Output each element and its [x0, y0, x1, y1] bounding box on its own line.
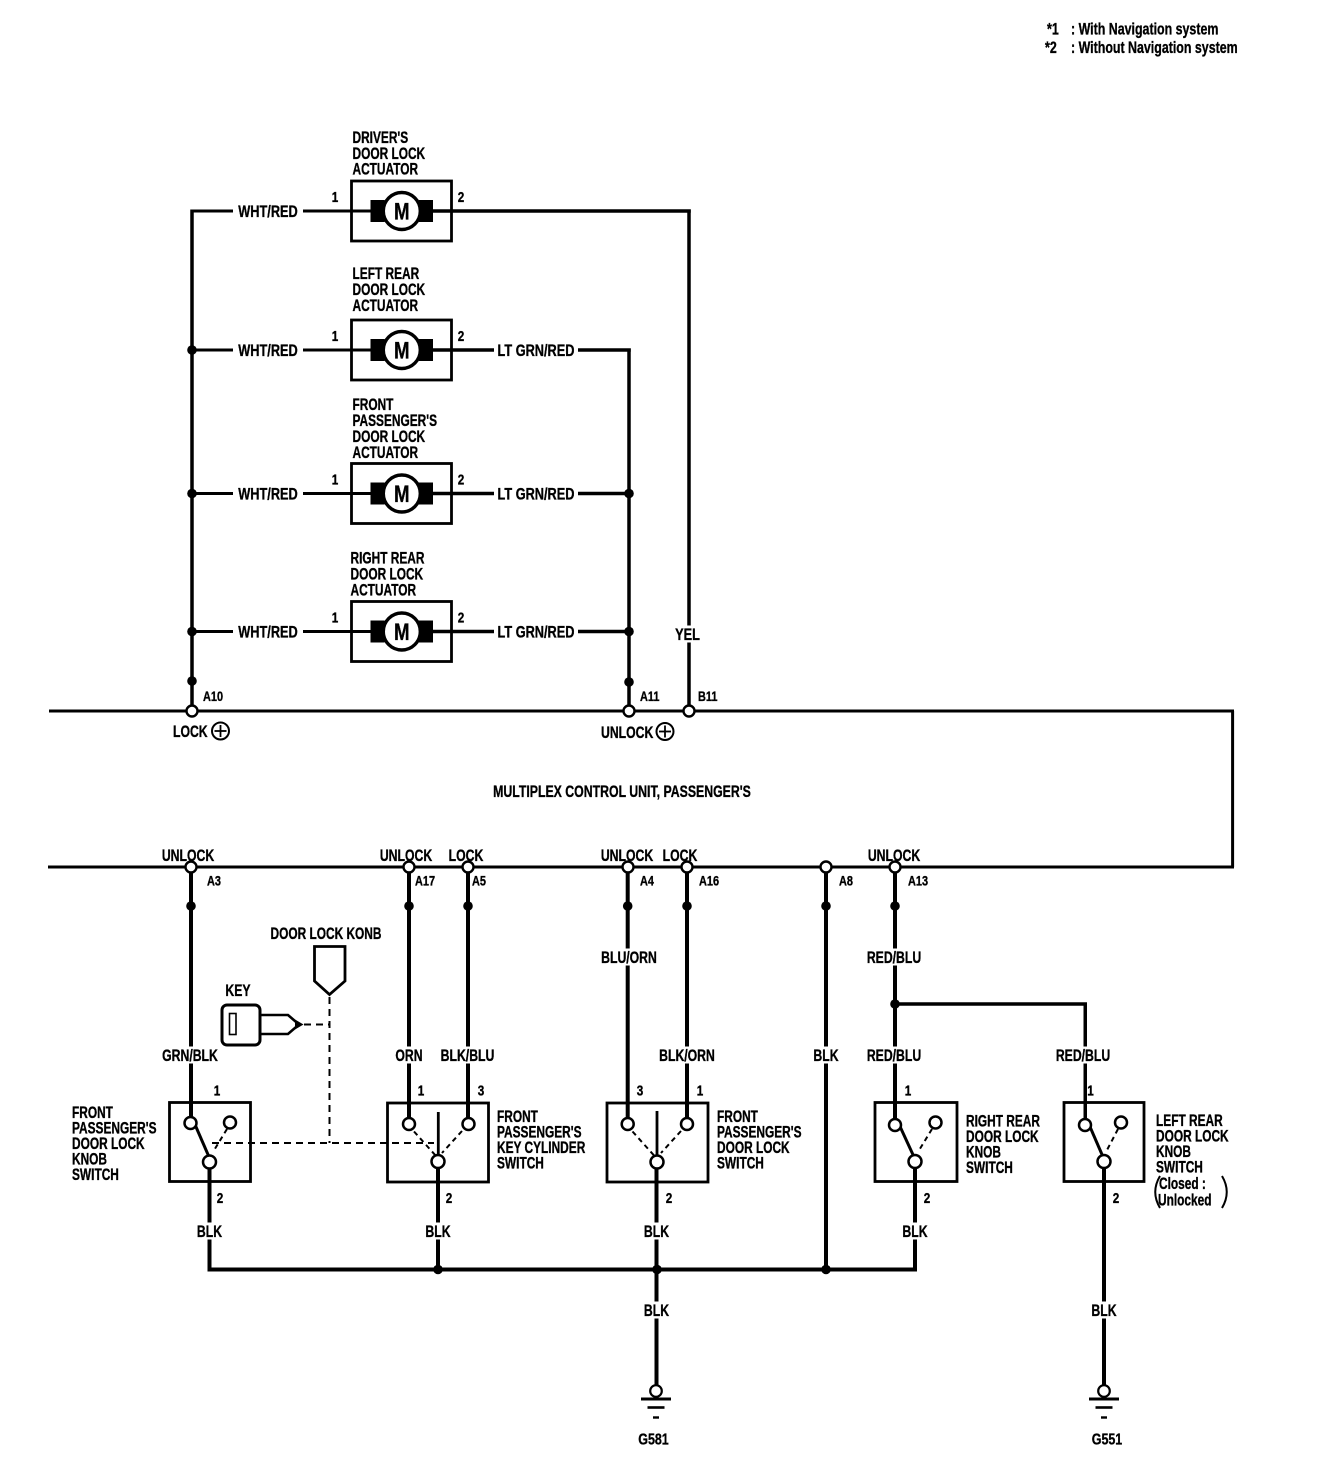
- wire BLK/BLU from A5 to key cylinder switch pin 3: [441, 873, 495, 1119]
- svg-text:BLK: BLK: [644, 1223, 669, 1241]
- svg-text:2: 2: [458, 471, 465, 488]
- svg-text:ACTUATOR: ACTUATOR: [351, 582, 417, 601]
- svg-text:RED/BLU: RED/BLU: [867, 949, 921, 967]
- junction below A4: [623, 901, 633, 911]
- svg-text:M: M: [394, 198, 410, 225]
- svg-text:KEY: KEY: [225, 982, 250, 1000]
- pin A16 LOCK: [663, 847, 719, 889]
- svg-text:A3: A3: [207, 873, 221, 889]
- junction lock trunk / left rear actuator: [187, 345, 197, 355]
- svg-text:2: 2: [446, 1190, 453, 1207]
- svg-text:M: M: [394, 619, 410, 646]
- junction below A17: [404, 901, 414, 911]
- svg-text:BLK: BLK: [644, 1302, 669, 1320]
- dashed link key to knob line: [304, 1024, 330, 1026]
- svg-text:A17: A17: [415, 873, 435, 889]
- svg-text:LT GRN/RED: LT GRN/RED: [498, 341, 575, 360]
- wire GRN/BLK from A3 to knob switch pin 1: [162, 873, 219, 1118]
- junction ground bus / S2: [433, 1265, 443, 1275]
- svg-text:SWITCH: SWITCH: [966, 1159, 1013, 1178]
- svg-text:BLK: BLK: [197, 1223, 222, 1241]
- svg-text:*2: *2: [1045, 39, 1057, 57]
- pin A17 UNLOCK: [380, 847, 435, 889]
- junction below A3: [186, 901, 196, 911]
- switch S5 left rear door lock knob switch: [1064, 1082, 1144, 1206]
- junction ground bus / A8: [821, 1265, 831, 1275]
- wire WHT/RED to front passenger's actuator pin 1: [192, 485, 371, 504]
- wire LT GRN/RED front passenger's actuator pin 2 to unlock trunk: [433, 485, 629, 504]
- svg-text:1: 1: [332, 189, 339, 206]
- svg-text:BLK/BLU: BLK/BLU: [441, 1047, 495, 1065]
- wire ground bus: [208, 1268, 918, 1272]
- svg-text:2: 2: [666, 1190, 673, 1207]
- svg-text:A11: A11: [640, 689, 659, 705]
- wire BLK switch S2 pin 2 to ground bus: [425, 1168, 452, 1269]
- svg-text:UNLOCK: UNLOCK: [601, 847, 654, 865]
- svg-text:WHT/RED: WHT/RED: [238, 485, 298, 504]
- junction below A5: [463, 901, 473, 911]
- svg-text:: With Navigation system: : With Navigation system: [1071, 21, 1218, 39]
- switch S2 label: [497, 1108, 586, 1173]
- svg-text:Unlocked: Unlocked: [1158, 1192, 1212, 1211]
- svg-text:UNLOCK: UNLOCK: [162, 847, 215, 865]
- svg-text:SWITCH: SWITCH: [717, 1155, 764, 1174]
- svg-text:ACTUATOR: ACTUATOR: [353, 444, 419, 463]
- wire RED/BLU from A13 to right rear knob switch pin 1: [867, 873, 922, 1120]
- svg-text:SWITCH: SWITCH: [497, 1155, 544, 1174]
- svg-text:1: 1: [332, 328, 339, 345]
- svg-text:SWITCH: SWITCH: [72, 1166, 119, 1185]
- wire lock trunk from driver actuator pin 1 down to A10: [190, 210, 194, 710]
- actuator label right rear door lock: [351, 550, 425, 601]
- switch S3 front passenger's door lock switch: [607, 1082, 708, 1206]
- svg-text:1: 1: [697, 1082, 704, 1099]
- svg-text:2: 2: [458, 189, 465, 206]
- svg-text:BLK: BLK: [425, 1223, 450, 1241]
- svg-text:G551: G551: [1092, 1431, 1123, 1449]
- svg-text:M: M: [394, 337, 410, 364]
- svg-text:ORN: ORN: [395, 1047, 422, 1065]
- wire BLK/ORN from A16 to door lock switch pin 1: [659, 873, 715, 1119]
- wire BLK switch S5 pin 2 to G551: [1091, 1168, 1118, 1385]
- actuator label left rear door lock: [353, 265, 426, 316]
- svg-text:1: 1: [332, 609, 339, 626]
- svg-text:1: 1: [214, 1082, 221, 1099]
- pin A5 LOCK: [449, 847, 486, 889]
- wire BLU/ORN from A4 to door lock switch pin 3: [601, 873, 657, 1119]
- junction unlock trunk / front passenger actuator: [624, 489, 634, 499]
- pin A13 UNLOCK: [868, 847, 928, 889]
- svg-text:ACTUATOR: ACTUATOR: [353, 297, 419, 316]
- pin A4 UNLOCK: [601, 847, 654, 889]
- actuator M3 front passenger's door lock: [332, 464, 465, 524]
- switch S4 label: [966, 1113, 1040, 1178]
- svg-text:2: 2: [1113, 1190, 1120, 1207]
- svg-text:1: 1: [1087, 1082, 1094, 1099]
- svg-text:A13: A13: [908, 873, 928, 889]
- svg-text:1: 1: [905, 1082, 912, 1099]
- svg-text:G581: G581: [638, 1431, 669, 1449]
- pin A3 UNLOCK: [162, 847, 221, 889]
- junction unlock trunk / right rear actuator: [624, 627, 634, 637]
- junction ground bus / S3: [652, 1265, 662, 1275]
- svg-text:WHT/RED: WHT/RED: [238, 623, 298, 642]
- svg-text:UNLOCK: UNLOCK: [601, 724, 654, 742]
- multiplex control unit, passenger's (box): [48, 710, 1234, 869]
- actuator label driver's door lock: [353, 129, 426, 179]
- switch S2 front passenger's key cylinder switch: [388, 1082, 489, 1206]
- wire WHT/RED to driver's actuator pin 1: [192, 202, 371, 221]
- wire driver's actuator pin 2 to YEL trunk: [433, 209, 691, 213]
- wire WHT/RED to left rear actuator pin 1: [192, 341, 371, 360]
- switch S4 right rear door lock knob switch: [875, 1082, 957, 1206]
- pin A11 UNLOCK: [601, 689, 674, 743]
- svg-text:A16: A16: [699, 873, 719, 889]
- key symbol: [222, 982, 304, 1045]
- ground G581: [638, 1385, 671, 1449]
- svg-text:*1: *1: [1047, 21, 1059, 39]
- wire BLK switch S1 pin 2 to ground bus: [196, 1169, 223, 1272]
- svg-text:BLK: BLK: [1091, 1302, 1116, 1320]
- svg-text:YEL: YEL: [675, 625, 700, 644]
- svg-text:BLK: BLK: [902, 1223, 927, 1241]
- wire YEL from driver actuator pin 2 down to B11: [675, 210, 700, 710]
- switch S5 label: [1155, 1112, 1229, 1210]
- wire ORN from A17 to key cylinder switch pin 1: [394, 873, 424, 1119]
- wire RED/BLU branch to left rear knob switch pin 1: [895, 1002, 1111, 1119]
- svg-text:2: 2: [217, 1190, 224, 1207]
- svg-text:UNLOCK: UNLOCK: [868, 847, 921, 865]
- dashed link knob/key to switches: [212, 1142, 434, 1144]
- svg-text:A5: A5: [472, 873, 486, 889]
- svg-text:BLU/ORN: BLU/ORN: [601, 949, 657, 967]
- svg-text:: Without Navigation system: : Without Navigation system: [1071, 39, 1238, 57]
- junction lock trunk / front passenger actuator: [187, 489, 197, 499]
- junction lock trunk above A10: [187, 676, 197, 686]
- svg-text:LT GRN/RED: LT GRN/RED: [498, 485, 575, 504]
- svg-text:2: 2: [924, 1190, 931, 1207]
- junction below A13: [890, 901, 900, 911]
- wire BLK switch S3 pin 2 to ground bus and G581: [643, 1169, 670, 1386]
- door lock knob symbol: [271, 925, 382, 994]
- dashed link knob down: [329, 997, 331, 1143]
- svg-text:LOCK: LOCK: [449, 847, 484, 865]
- svg-text:MULTIPLEX CONTROL UNIT, PASSEN: MULTIPLEX CONTROL UNIT, PASSENGER'S: [493, 783, 751, 801]
- pin B11: [684, 689, 718, 717]
- svg-text:RED/BLU: RED/BLU: [867, 1047, 921, 1065]
- svg-text:LOCK: LOCK: [663, 847, 698, 865]
- svg-text:RED/BLU: RED/BLU: [1056, 1047, 1110, 1065]
- svg-text:A10: A10: [203, 689, 223, 705]
- switch S3 label: [717, 1108, 802, 1173]
- wire BLK from A8 to ground bus: [813, 873, 840, 1270]
- svg-text:2: 2: [458, 328, 465, 345]
- junction below A8: [821, 901, 831, 911]
- wire unlock trunk from left rear actuator pin 2 down to A11: [627, 349, 631, 710]
- svg-text:WHT/RED: WHT/RED: [238, 341, 298, 360]
- actuator label front passenger's door lock: [353, 396, 438, 463]
- junction lock trunk / right rear actuator: [187, 627, 197, 637]
- svg-text:2: 2: [458, 609, 465, 626]
- svg-text:WHT/RED: WHT/RED: [238, 202, 298, 221]
- wire LT GRN/RED left rear actuator pin 2 to unlock trunk: [433, 341, 631, 360]
- svg-text:3: 3: [637, 1082, 644, 1099]
- svg-text:UNLOCK: UNLOCK: [380, 847, 433, 865]
- switch S1 label: [72, 1104, 157, 1185]
- actuator M4 right rear door lock: [332, 602, 465, 662]
- svg-text:M: M: [394, 481, 410, 508]
- junction unlock trunk above A11: [624, 677, 634, 687]
- ground G551: [1089, 1385, 1122, 1449]
- junction below A16: [682, 901, 692, 911]
- svg-text:BLK: BLK: [813, 1047, 838, 1065]
- actuator M1 driver's door lock: [332, 181, 465, 241]
- pin A8: [821, 862, 853, 889]
- svg-text:ACTUATOR: ACTUATOR: [353, 161, 419, 180]
- svg-text:B11: B11: [698, 689, 717, 705]
- svg-text:LT GRN/RED: LT GRN/RED: [498, 623, 575, 642]
- wire LT GRN/RED right rear actuator pin 2 to unlock trunk: [433, 623, 629, 642]
- switch S1 front passenger's door lock knob switch: [170, 1082, 251, 1206]
- svg-text:A8: A8: [839, 873, 853, 889]
- svg-text:LOCK: LOCK: [173, 723, 208, 741]
- actuator M2 left rear door lock: [332, 320, 465, 380]
- wire BLK switch S4 pin 2 to ground bus: [902, 1168, 929, 1272]
- svg-text:1: 1: [332, 471, 339, 488]
- svg-text:A4: A4: [640, 873, 654, 889]
- svg-text:1: 1: [418, 1082, 425, 1099]
- svg-text:GRN/BLK: GRN/BLK: [162, 1047, 218, 1065]
- pin A10 LOCK: [173, 689, 229, 742]
- wire WHT/RED to right rear actuator pin 1: [192, 623, 371, 642]
- svg-text:BLK/ORN: BLK/ORN: [659, 1047, 715, 1065]
- svg-text:3: 3: [478, 1082, 485, 1099]
- junction RED/BLU branch: [890, 999, 900, 1009]
- note navigation legend: [1045, 21, 1238, 58]
- svg-text:DOOR LOCK KONB: DOOR LOCK KONB: [271, 925, 382, 944]
